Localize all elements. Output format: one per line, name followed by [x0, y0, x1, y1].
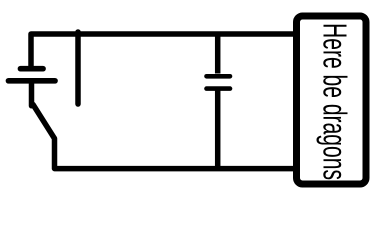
- svg-text:Here be dragons: Here be dragons: [317, 23, 354, 180]
- capacitor C1 bottom lead: [215, 89, 221, 169]
- battery B1 bottom plate (long): [9, 78, 56, 84]
- wire: battery bottom stem: [29, 81, 35, 106]
- capacitor C1 top lead: [215, 34, 221, 74]
- capacitor C1 top plate: [207, 74, 231, 79]
- load box U1 "Here be dragons": [297, 16, 367, 184]
- capacitor C1 bottom plate: [207, 86, 231, 91]
- switch SW1 fixed contact (dangling vertical from top rail): [75, 32, 81, 104]
- switch SW1 blade + wire: bottom rail to load box: [33, 105, 295, 169]
- wire: top rail from battery top to load box: [31, 34, 295, 69]
- battery B1 top plate (short): [21, 66, 44, 72]
